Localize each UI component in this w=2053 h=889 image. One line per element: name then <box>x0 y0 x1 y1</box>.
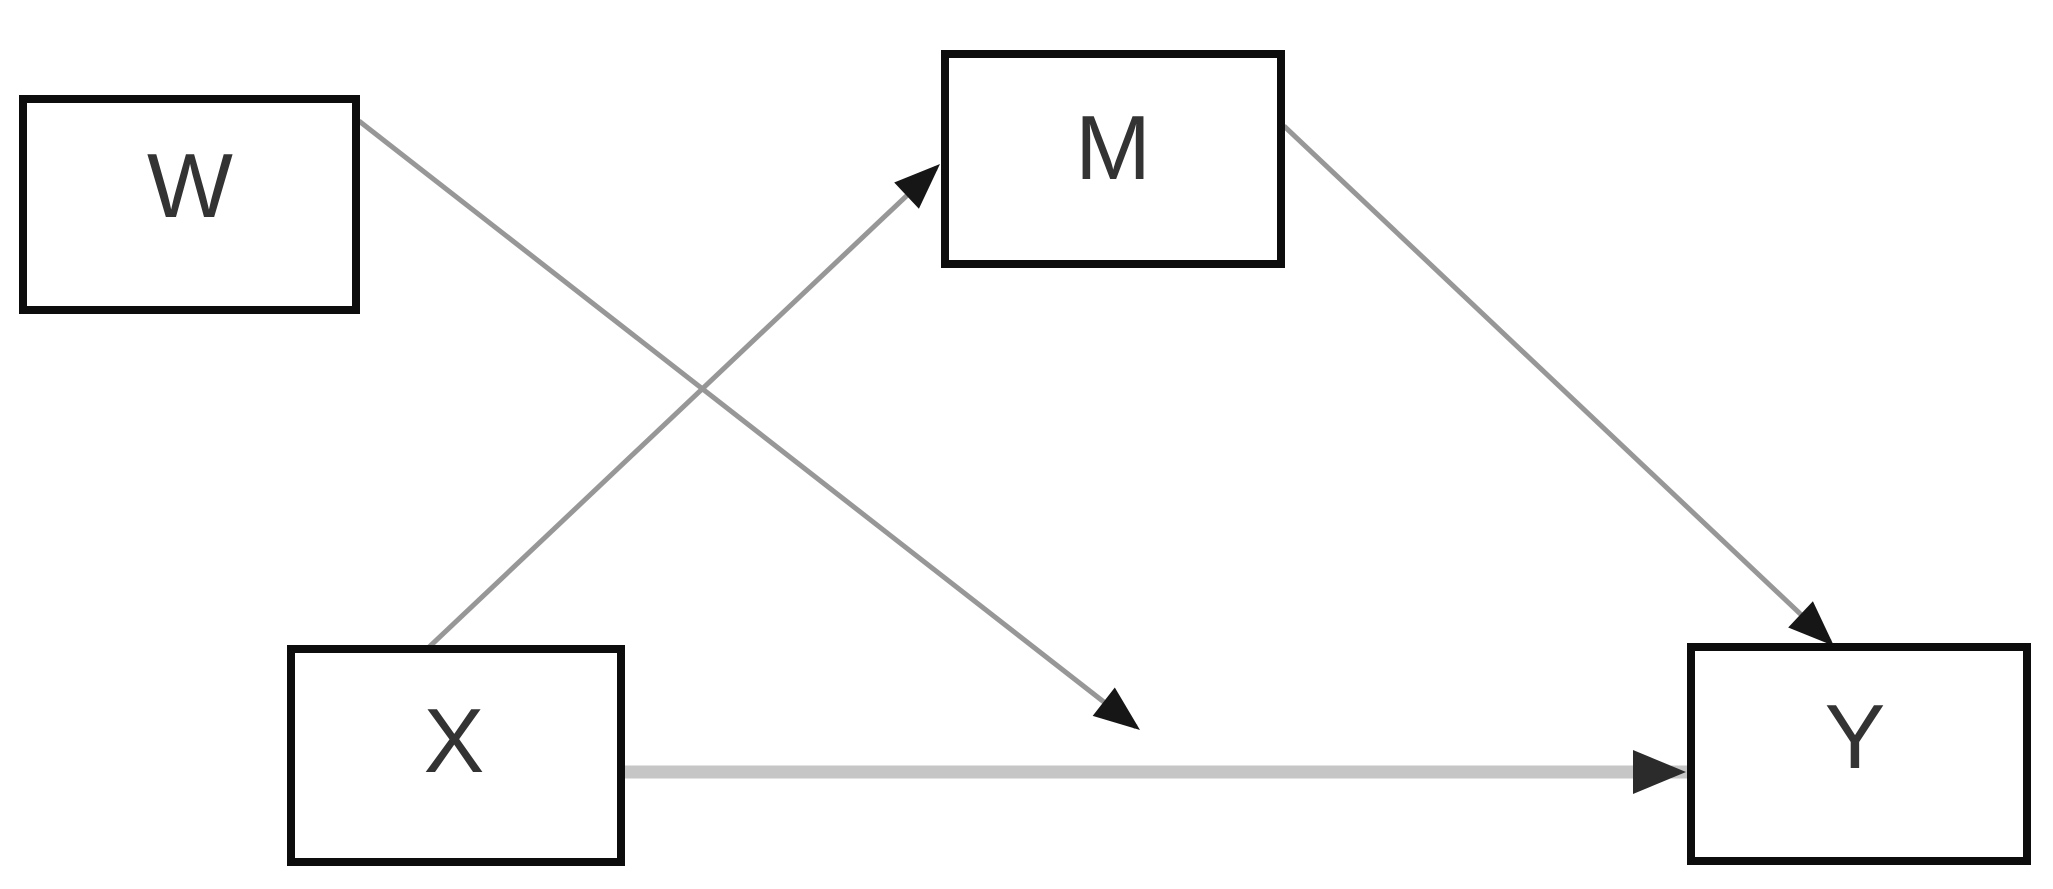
svg-text:M: M <box>1075 98 1151 199</box>
svg-text:W: W <box>147 136 233 237</box>
svg-text:X: X <box>424 691 485 792</box>
svg-text:Y: Y <box>1825 687 1886 788</box>
